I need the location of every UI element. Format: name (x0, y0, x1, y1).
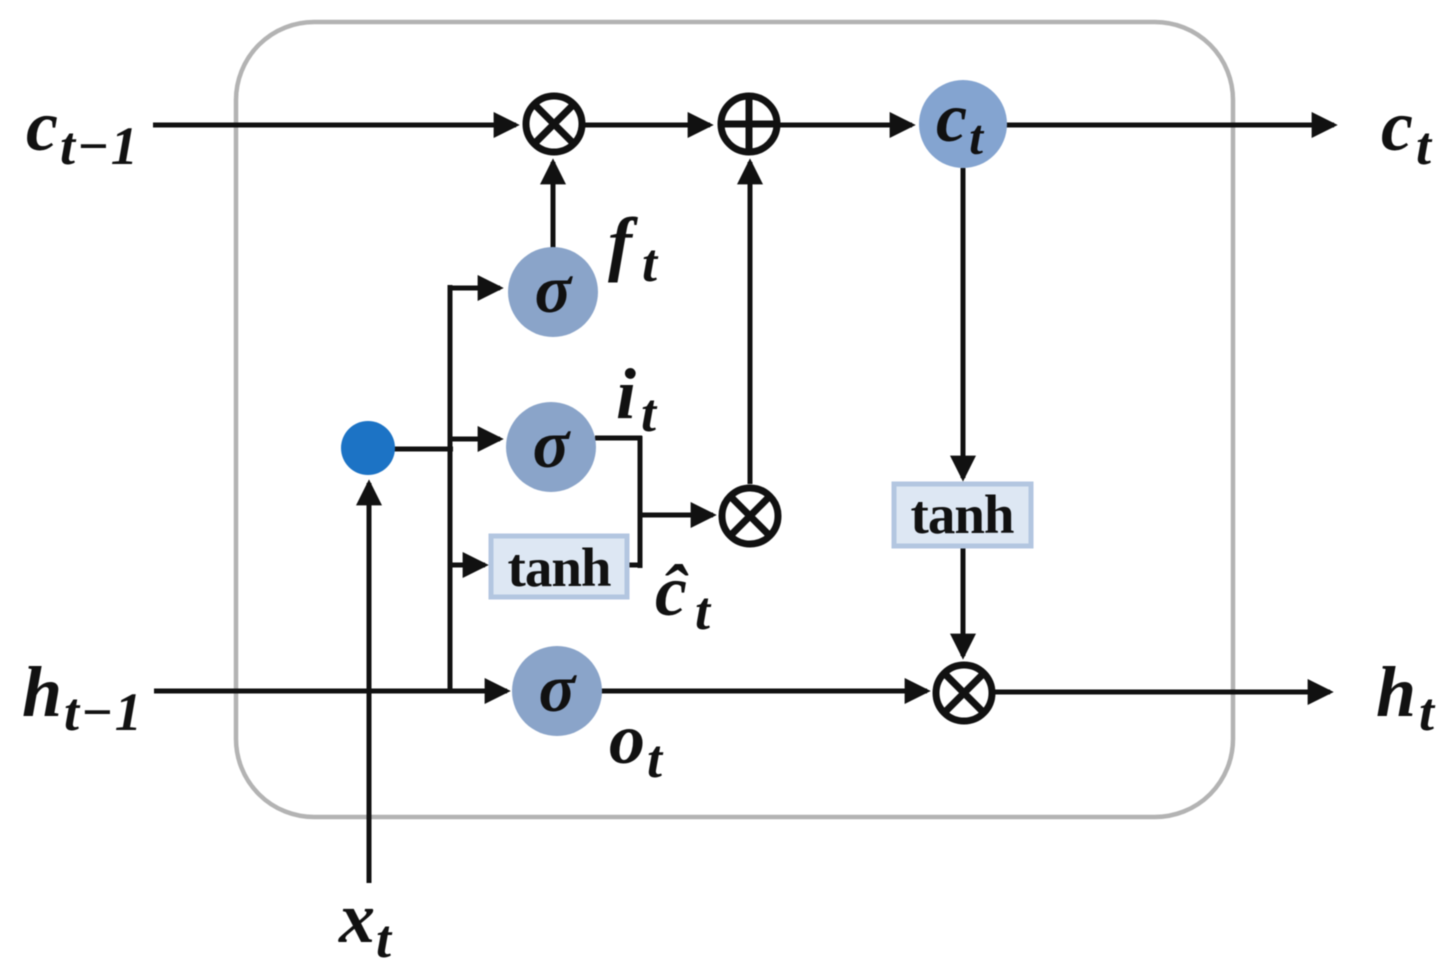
svg-text:σ: σ (535, 251, 574, 327)
svg-text:tanh: tanh (911, 484, 1014, 545)
svg-text:σ: σ (533, 406, 572, 482)
svg-text:σ: σ (539, 650, 578, 726)
svg-text:tanh: tanh (508, 537, 611, 598)
